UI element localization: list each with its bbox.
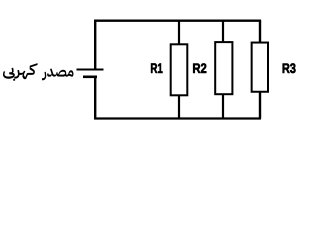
wire: R1 branch bottom stub — [178, 95, 180, 118]
wire: top bus from left corner to right corner — [95, 20, 260, 22]
wire: left branch upper segment (top bus down to battery plate) — [94, 21, 96, 70]
label R1 — [151, 63, 163, 73]
wire: R2 branch top stub — [222, 21, 224, 42]
wire: R3 / right branch top segment — [259, 21, 261, 43]
label: Arabic source label "مصدر كهربى" — [3, 63, 73, 81]
label R3 — [282, 63, 295, 73]
resistor R2 body — [215, 42, 232, 94]
resistor R1 body — [171, 44, 188, 95]
wire: bottom bus from left corner to right corner — [95, 117, 260, 119]
wire: left branch lower segment (battery to bottom bus) — [94, 77, 96, 119]
wire: R1 branch top stub — [178, 21, 180, 45]
resistor R3 body — [252, 43, 268, 92]
wire: R2 branch bottom stub — [222, 94, 224, 118]
label R2 — [193, 63, 207, 73]
wire: R3 / right branch bottom segment — [259, 92, 261, 119]
battery B1 long plate (positive) — [77, 69, 104, 71]
battery B1 short plate (negative) — [83, 76, 97, 79]
